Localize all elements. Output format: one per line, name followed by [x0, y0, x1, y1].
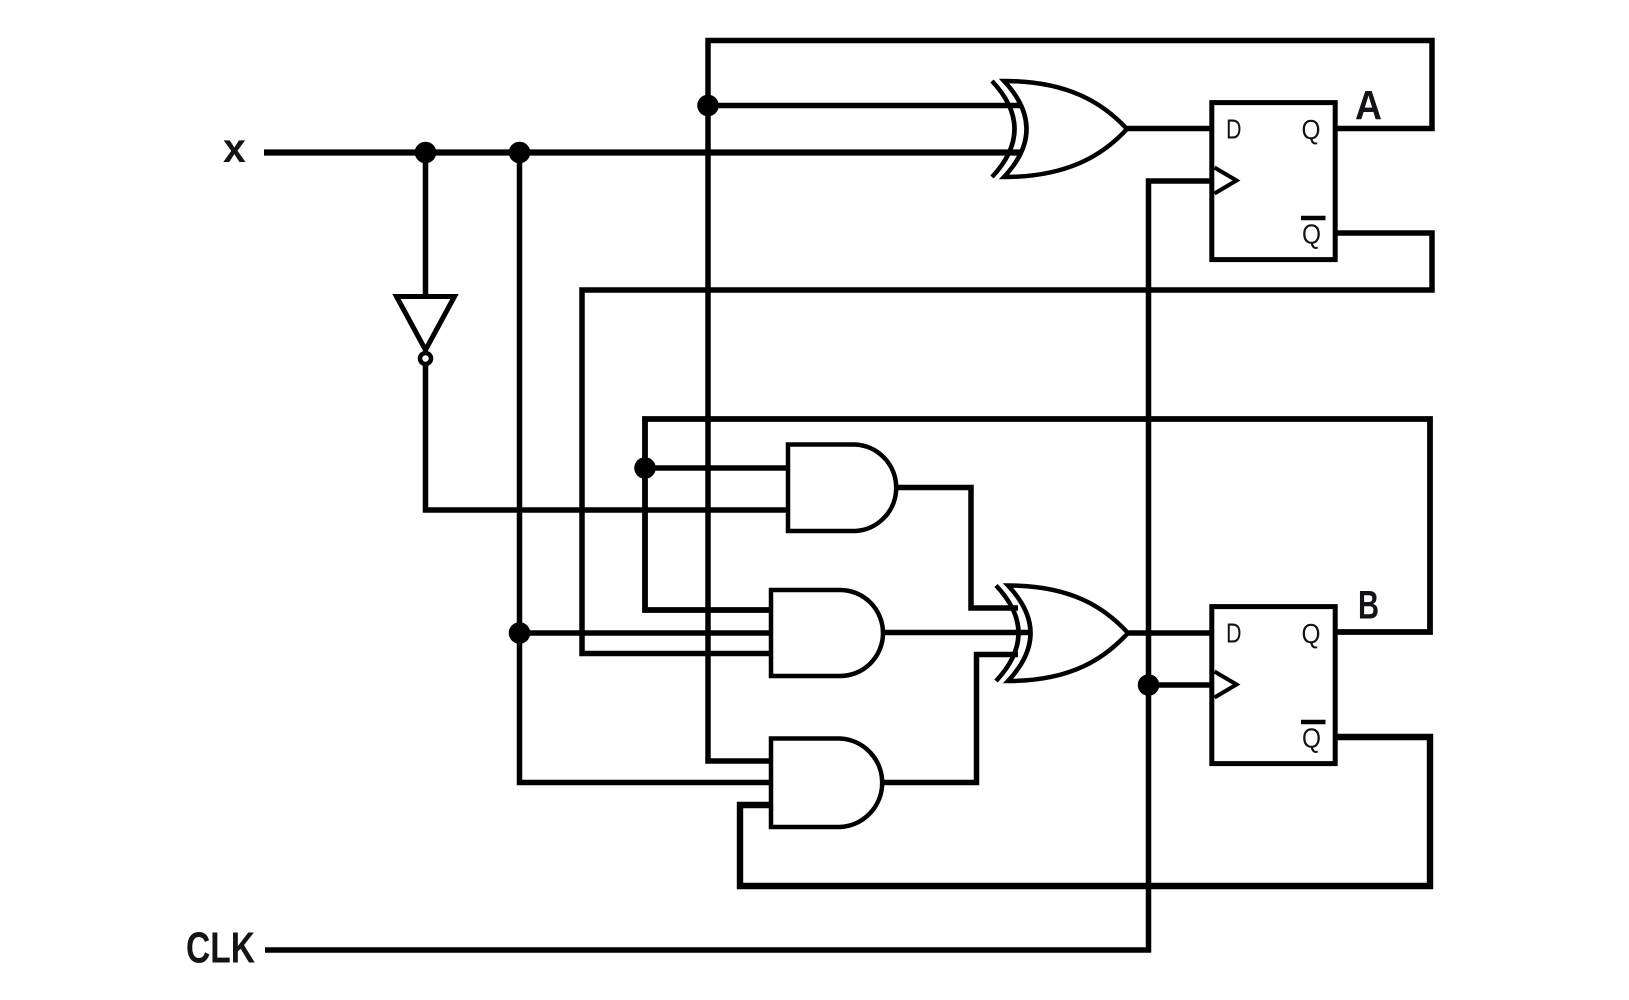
wire branch CLK to FF B clock [1149, 682, 1214, 688]
wire net x : input line to XOR U1 lower input [264, 149, 1032, 155]
svg-text:Q: Q [1302, 219, 1321, 250]
svg-text:Q: Q [1302, 723, 1321, 754]
svg-text:Q: Q [1302, 114, 1321, 145]
AND gate U5 (middle, 3 inputs) [771, 590, 883, 676]
flip-flop U7 clock triangle [1215, 168, 1237, 194]
wire AND2 output to XOR U2 input 2 [883, 630, 1040, 636]
wire net A.Qbar : FF A Qbar right, down, left at y=290, down at x=582, right to AND2 input 3 [582, 233, 1432, 654]
flip-flop U7 box (A) [1212, 103, 1335, 260]
wire branch from node at (708,105.5) to XOR U1 top input [708, 103, 1032, 109]
wire branch x down to inverter input [423, 153, 429, 298]
svg-text:B: B [1358, 584, 1379, 628]
node CLK junction [1141, 677, 1157, 693]
wire net B.Qbar : FF B Qbar right, down, left at y=886, up at x=740, right to AND3 input 3 [740, 737, 1430, 886]
wire branch from (519.5,633) to AND2 input 2 [520, 630, 773, 636]
AND gate U6 (bottom, 3 inputs) [771, 739, 882, 828]
flip-flop U8 clock triangle [1215, 672, 1237, 698]
wire inverter output down then right to AND1 input 2 [426, 364, 789, 510]
svg-text:D: D [1226, 618, 1242, 649]
node x-inverter junction [418, 145, 434, 161]
svg-text:Q: Q [1302, 618, 1321, 649]
node x-branch junction [512, 145, 528, 161]
AND gate U4 (top, 2 inputs) [788, 445, 896, 532]
svg-text:A: A [1355, 82, 1382, 128]
svg-text:D: D [1226, 114, 1242, 145]
wire branch x down at x=519.5, junction at y=633, corner to AND3 input 2 [520, 153, 773, 783]
wire XOR U1 output to FF A D input [1127, 126, 1213, 132]
pin label Qbar (FF A) [1301, 216, 1326, 221]
node A.Q junction [700, 98, 716, 114]
svg-text:CLK: CLK [186, 924, 255, 973]
node B.Q junction [637, 460, 653, 476]
inverter U3 (NOT gate, pointing down) [397, 297, 455, 365]
pin label Qbar (FF B) [1301, 720, 1326, 725]
XOR gate U2 (bottom, 3 inputs) [996, 586, 1128, 682]
wire AND1 output right, down, right to XOR U2 input 1 [898, 488, 1018, 609]
wire AND3 output right, up, right to XOR U2 input 3 [884, 655, 1018, 783]
wire branch from (645,468) to AND1 input 1 [645, 465, 788, 471]
wire net A.Q : FF A Q output right, up, top rail left, down at x=708, to AND3 input 1 [708, 41, 1432, 762]
svg-text:x: x [223, 125, 246, 171]
wire net CLK : bottom line right, up at x=1148.5, right to FF A clock [265, 181, 1213, 950]
wire net B.Q : FF B Q right, up, left at y=419, down at x=645, to AND2 input 1 [645, 419, 1430, 632]
XOR gate U1 (top) [992, 81, 1127, 177]
node x-AND2 junction [512, 625, 528, 641]
wire XOR U2 output to FF B D input [1128, 630, 1213, 636]
flip-flop U8 box (B) [1212, 607, 1335, 764]
